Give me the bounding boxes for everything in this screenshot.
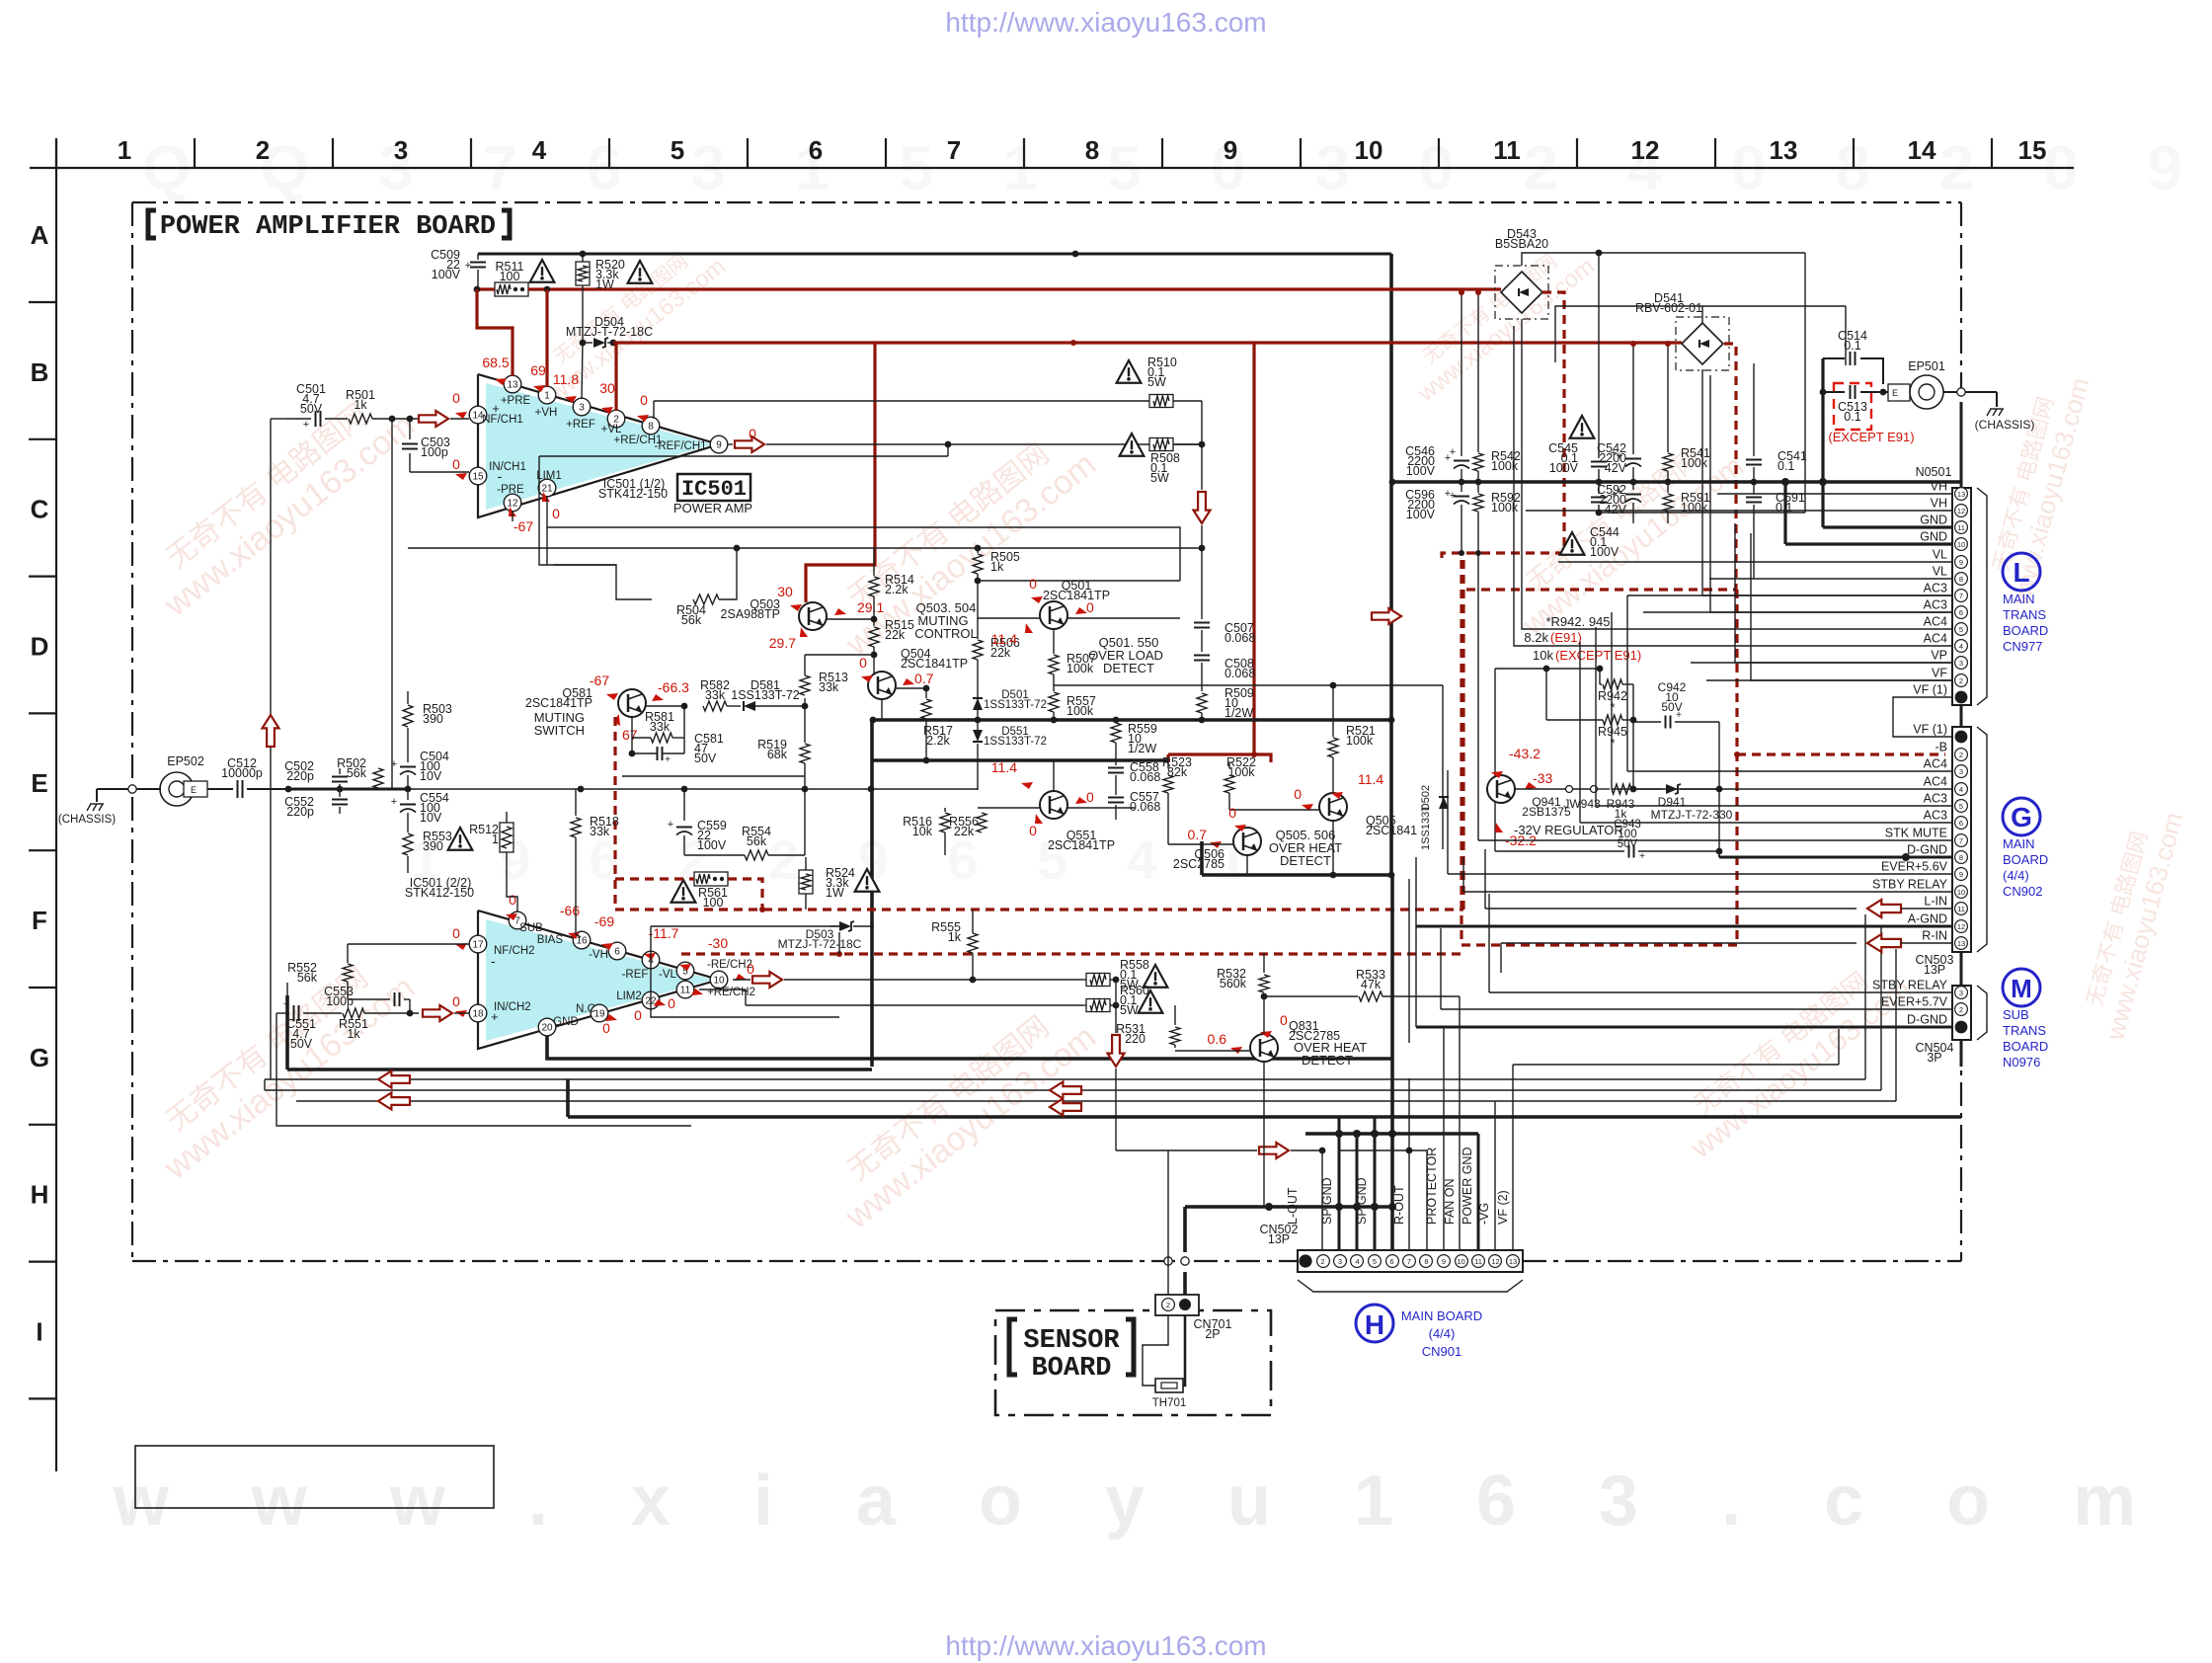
sensor board title	[1009, 1319, 1017, 1375]
svg-text:SWITCH: SWITCH	[534, 723, 585, 738]
svg-text:56k: 56k	[347, 766, 367, 780]
svg-text:VF (1): VF (1)	[1913, 683, 1947, 697]
svg-text:MTZJ-T-72-18C: MTZJ-T-72-18C	[778, 937, 862, 951]
svg-text:-67: -67	[513, 518, 533, 534]
vertical feeds right of rails	[1864, 914, 1866, 1079]
svg-text:N0976: N0976	[2003, 1055, 2040, 1069]
wire thick bus y=1222	[1185, 1205, 1392, 1209]
capacitor C541	[1753, 363, 1755, 456]
svg-text:7: 7	[1959, 592, 1963, 600]
IC501 (2/2) pin circles	[509, 911, 526, 929]
board dash-dot outline POWER AMPLIFIER BOARD	[132, 201, 1961, 203]
svg-text:(EXCEPT E91): (EXCEPT E91)	[1828, 430, 1914, 444]
svg-text:10: 10	[713, 976, 725, 987]
transistor Q501	[1040, 601, 1067, 629]
svg-text:-VH: -VH	[589, 949, 608, 961]
wire red x=886 to muting control	[806, 343, 875, 602]
svg-text:SP GND: SP GND	[1320, 1177, 1334, 1225]
svg-text:0: 0	[1086, 599, 1094, 615]
svg-text:82k: 82k	[1167, 765, 1188, 779]
svg-text:+: +	[665, 754, 671, 765]
svg-text:22k: 22k	[990, 646, 1011, 660]
resistor R516	[944, 808, 946, 812]
svg-text:G: G	[2011, 802, 2032, 832]
svg-text:0.1: 0.1	[1844, 410, 1860, 424]
svg-text:1SS133T-72: 1SS133T-72	[984, 699, 1047, 711]
red dashed from D543	[1542, 292, 1564, 553]
svg-text:0.068: 0.068	[1130, 770, 1160, 784]
svg-text:30: 30	[777, 584, 793, 599]
capacitor C546	[1461, 292, 1462, 456]
svg-text:2SC2785: 2SC2785	[1173, 857, 1224, 871]
svg-text:5: 5	[1373, 1257, 1377, 1266]
wire y=1165 L-OUT feed	[1116, 1149, 1257, 1151]
svg-text:68.5: 68.5	[482, 355, 509, 370]
svg-text:H: H	[1365, 1309, 1384, 1340]
svg-text:2SA988TP: 2SA988TP	[721, 607, 780, 621]
capacitor C512	[207, 788, 233, 790]
svg-text:9: 9	[1224, 135, 1237, 165]
svg-text:0: 0	[1228, 805, 1236, 821]
svg-text:VF (2): VF (2)	[1496, 1190, 1510, 1225]
svg-text:CN977: CN977	[2003, 639, 2042, 654]
resistor R591	[1667, 482, 1669, 493]
svg-text:+REF: +REF	[566, 419, 595, 431]
wire thick bus y=488	[1392, 480, 1961, 484]
svg-text:D941: D941	[1658, 795, 1687, 809]
svg-text:3: 3	[1338, 1257, 1342, 1266]
svg-text:B5SBA20: B5SBA20	[1495, 237, 1548, 251]
wire y=694	[1054, 684, 1443, 686]
svg-text:67: 67	[622, 727, 638, 743]
svg-text:+RE/CH2: +RE/CH2	[707, 987, 755, 998]
svg-text:19: 19	[593, 1009, 605, 1020]
svg-text:0.1: 0.1	[1844, 339, 1860, 353]
open circles border crossing	[1164, 1257, 1172, 1265]
svg-text:MTZJ-T-72-330: MTZJ-T-72-330	[1651, 808, 1733, 822]
wire thick D-GND feed	[1718, 855, 1720, 857]
svg-text:GND: GND	[1920, 514, 1947, 527]
svg-text:BOARD: BOARD	[2003, 1039, 2048, 1054]
svg-text:7: 7	[1959, 836, 1963, 845]
wire ch2 out bus tail	[286, 983, 288, 995]
connector CN701	[1155, 1295, 1199, 1315]
bridge D541	[1676, 317, 1729, 370]
svg-text:12: 12	[1957, 507, 1965, 515]
wire x=590 R520 to D504 to pin3	[582, 254, 584, 262]
resistor R514	[869, 577, 879, 596]
svg-text:2: 2	[1166, 1301, 1170, 1309]
wire red to pin 2	[614, 343, 617, 411]
wire thick rail y=1131	[568, 1115, 1961, 1119]
wire input loop ch2 down	[276, 1013, 691, 1126]
svg-text:100k: 100k	[1066, 704, 1094, 718]
svg-text:C: C	[31, 495, 49, 524]
svg-text:33k: 33k	[819, 680, 839, 694]
svg-text:11.4: 11.4	[1358, 771, 1383, 787]
svg-text:-30: -30	[708, 935, 728, 951]
svg-text:9: 9	[1959, 870, 1963, 879]
svg-text:1SS133T-72: 1SS133T-72	[984, 736, 1047, 748]
wire y=519	[1599, 512, 1805, 514]
svg-text:10: 10	[1957, 888, 1965, 897]
wires into CN504	[1489, 991, 1952, 993]
thick gnd pin20 path y=1072	[547, 1036, 1392, 1059]
svg-text:0: 0	[452, 456, 460, 472]
red dashed vertical x=623	[613, 717, 616, 910]
svg-text:GND: GND	[553, 1016, 579, 1028]
svg-text:13: 13	[1770, 135, 1798, 165]
wire Q501	[978, 617, 1040, 619]
thick stub between connectors	[1960, 705, 1963, 727]
svg-text:IC501: IC501	[681, 477, 747, 502]
svg-text:56k: 56k	[747, 834, 767, 848]
svg-text:8: 8	[1959, 575, 1963, 584]
svg-text:29.7: 29.7	[769, 635, 796, 651]
diode D503	[829, 925, 839, 927]
wires into CN503	[1627, 770, 1952, 772]
svg-text:G: G	[30, 1043, 49, 1072]
svg-text:N.C: N.C	[576, 1003, 595, 1015]
wire nest right of bank	[1702, 369, 1754, 579]
svg-text:AC4: AC4	[1924, 775, 1947, 789]
wire thick bus y=886	[1202, 873, 1391, 877]
svg-text:8: 8	[648, 422, 654, 433]
wire bus A y=729	[873, 718, 1391, 722]
svg-text:EP501: EP501	[1908, 359, 1945, 373]
svg-text:10k: 10k	[1533, 648, 1553, 663]
arrow up x=274	[263, 715, 279, 747]
svg-text:220: 220	[1125, 1032, 1145, 1046]
svg-text:7: 7	[947, 135, 961, 165]
svg-text:0: 0	[747, 961, 754, 977]
IC501 box label	[677, 474, 750, 501]
svg-text:10V: 10V	[420, 811, 442, 825]
svg-text:EVER+5.6V: EVER+5.6V	[1881, 860, 1948, 874]
wire y=553/555 line	[408, 547, 1202, 549]
svg-text:D-GND: D-GND	[1907, 843, 1947, 857]
svg-text:8: 8	[1959, 853, 1963, 862]
svg-text:MAIN BOARD: MAIN BOARD	[1401, 1308, 1482, 1323]
svg-text:10: 10	[1457, 1257, 1464, 1266]
wire CN701 to TH701	[1143, 1315, 1168, 1386]
capacitor C508	[1194, 655, 1210, 657]
wire x=885 vertical chain	[873, 548, 875, 576]
capacitor C558	[1108, 767, 1124, 769]
wire red over heat block horizontal	[1168, 754, 1271, 762]
resistor R560 boxed	[1081, 1004, 1086, 1006]
svg-text:2: 2	[1959, 1005, 1963, 1014]
svg-text:5W: 5W	[1120, 1003, 1139, 1017]
svg-text:+: +	[1611, 447, 1617, 459]
svg-text:BOARD: BOARD	[2003, 852, 2048, 867]
wire bus B y=770	[872, 758, 1168, 762]
svg-text:12: 12	[1631, 135, 1660, 165]
svg-text:2.2k: 2.2k	[885, 583, 908, 596]
blue G circle	[2003, 798, 2040, 835]
wire red jog to pin 13	[477, 289, 513, 376]
svg-text:GND: GND	[1920, 530, 1947, 544]
wire y=866 loop	[683, 789, 685, 821]
svg-text:-: -	[498, 468, 503, 484]
svg-text:-66: -66	[560, 903, 580, 918]
svg-text:-PRE: -PRE	[497, 484, 524, 496]
svg-text:N0501: N0501	[1916, 465, 1952, 479]
wire thick EP501 loop	[1821, 358, 1824, 527]
svg-text:(EXCEPT E91): (EXCEPT E91)	[1555, 648, 1641, 663]
wire red rail R1 y=293	[477, 287, 495, 290]
wires into N0501	[1717, 493, 1952, 495]
svg-text:AC3: AC3	[1924, 809, 1947, 823]
svg-text:L-OUT: L-OUT	[1286, 1187, 1300, 1225]
thermistor TH701	[1155, 1379, 1183, 1392]
svg-text:3P: 3P	[1927, 1051, 1941, 1065]
svg-text:+: +	[1450, 446, 1456, 458]
svg-text:IN/CH1: IN/CH1	[489, 461, 526, 473]
red dashed rail y=966	[681, 952, 1463, 955]
svg-text:9: 9	[716, 440, 722, 451]
svg-text:PROTECTOR: PROTECTOR	[1425, 1148, 1439, 1225]
resistor R509	[1197, 693, 1207, 713]
wire nest AC4 from D543	[1522, 319, 1659, 629]
capacitor C581	[631, 738, 633, 753]
svg-text:4: 4	[1355, 1257, 1359, 1266]
svg-text:FAN ON: FAN ON	[1443, 1178, 1457, 1225]
blue M circle	[2003, 969, 2040, 1006]
ground chassis left	[87, 804, 91, 811]
svg-text:0: 0	[1029, 823, 1037, 838]
svg-text:5: 5	[1959, 802, 1963, 811]
svg-text:1k: 1k	[948, 930, 962, 944]
svg-text:33k: 33k	[705, 688, 726, 702]
terminal EP502	[160, 772, 194, 806]
capacitor C514	[1850, 352, 1852, 365]
svg-text:11: 11	[1493, 135, 1521, 165]
svg-text:0: 0	[1280, 1012, 1288, 1028]
svg-text:+: +	[1639, 851, 1645, 862]
svg-text:-REF: -REF	[622, 969, 649, 981]
svg-text:http://www.xiaoyu163.com: http://www.xiaoyu163.com	[945, 7, 1266, 38]
capacitor C592	[1632, 482, 1634, 490]
wire nest AC3 from D541	[1702, 369, 1952, 595]
resistor R515	[873, 619, 875, 626]
wire long rail y=1115	[296, 1100, 1896, 1102]
CN502 brace	[1298, 1280, 1523, 1292]
wire feedback x=397 down to E bus	[391, 419, 393, 789]
resistor R517	[925, 688, 927, 698]
svg-text:11.8: 11.8	[553, 371, 579, 387]
svg-text:0: 0	[602, 1020, 610, 1036]
svg-text:13: 13	[1509, 1257, 1517, 1266]
svg-text:18: 18	[472, 1009, 484, 1020]
svg-text:RBV-602-01: RBV-602-01	[1635, 301, 1702, 315]
svg-text:15: 15	[2018, 135, 2047, 165]
svg-text:AC4: AC4	[1924, 632, 1947, 646]
svg-text:100V: 100V	[432, 268, 461, 281]
op-amp IC501 (2/2) power amp channel 2	[486, 919, 713, 1041]
top ruler	[30, 167, 2074, 169]
diode D504	[583, 342, 592, 344]
svg-text:11: 11	[1474, 1257, 1482, 1266]
svg-text:390: 390	[423, 712, 443, 726]
svg-text:STK MUTE: STK MUTE	[1885, 827, 1947, 840]
resistor R558 boxed	[1081, 979, 1086, 981]
svg-text:100k: 100k	[1681, 456, 1708, 470]
svg-text:2SC1841: 2SC1841	[1366, 824, 1417, 837]
svg-text:68k: 68k	[767, 748, 788, 761]
svg-text:100: 100	[703, 896, 724, 910]
svg-text:47k: 47k	[1361, 978, 1382, 991]
svg-text:10: 10	[1355, 135, 1383, 165]
resistor R592	[1477, 482, 1479, 493]
wire R504 loop	[553, 565, 652, 599]
svg-text:A: A	[31, 220, 49, 250]
resistor R508	[873, 443, 1149, 445]
svg-text:STBY RELAY: STBY RELAY	[1872, 878, 1948, 892]
capacitor C507	[1194, 622, 1210, 624]
svg-text:5: 5	[1959, 625, 1963, 634]
svg-text:100p: 100p	[326, 994, 354, 1008]
svg-text:*R942. 945: *R942. 945	[1545, 614, 1610, 629]
svg-text:w w w . x i a o y u 1 6 3 . c: w w w . x i a o y u 1 6 3 . c o m	[113, 1462, 2168, 1541]
svg-text:2: 2	[1959, 751, 1963, 759]
wire x=1654	[1632, 684, 1634, 789]
svg-text:12: 12	[1491, 1257, 1499, 1266]
svg-text:4: 4	[1959, 785, 1963, 794]
svg-text:9: 9	[1959, 558, 1963, 567]
wire x=1217 column	[1201, 401, 1203, 490]
capacitor C545	[1570, 416, 1595, 438]
resistor R505	[977, 548, 979, 553]
svg-text:+: +	[465, 260, 471, 272]
vertical nest above connector rows	[1716, 425, 1718, 494]
svg-text:13: 13	[1957, 939, 1965, 948]
svg-text:50V: 50V	[694, 752, 717, 765]
resistor R942	[1599, 669, 1601, 684]
resistor R506	[977, 581, 979, 639]
svg-text:1W: 1W	[826, 886, 844, 900]
transistor Q831	[1250, 1034, 1278, 1062]
svg-text:7: 7	[1407, 1257, 1411, 1266]
svg-text:100k: 100k	[1227, 765, 1255, 779]
thin pin feeds CN502	[1426, 1151, 1428, 1254]
svg-text:29.1: 29.1	[857, 599, 884, 615]
svg-text:LIM2: LIM2	[616, 990, 642, 1002]
svg-text:2: 2	[256, 135, 270, 165]
svg-text:220p: 220p	[286, 769, 314, 783]
wire Q831	[1175, 1050, 1250, 1052]
svg-text:-33: -33	[1533, 770, 1552, 786]
svg-text:0.068: 0.068	[1224, 667, 1255, 680]
svg-text:6: 6	[1959, 819, 1963, 828]
red dashed y=560	[1442, 553, 1564, 560]
transistor Q941	[1487, 775, 1515, 803]
svg-text:-66.3: -66.3	[658, 679, 689, 695]
svg-text:56k: 56k	[297, 971, 318, 985]
svg-text:L-IN: L-IN	[1924, 895, 1947, 909]
svg-text:+VH: +VH	[535, 407, 558, 419]
wire Q505	[1332, 685, 1334, 737]
svg-text:2: 2	[1959, 676, 1963, 685]
wire long rail y=1104	[265, 1089, 1881, 1091]
svg-text:100V: 100V	[697, 838, 727, 852]
svg-text:1W: 1W	[595, 277, 614, 291]
resistor R521	[1328, 738, 1338, 757]
wire thick rail y=1147	[1305, 1132, 1478, 1136]
diode D551	[977, 720, 979, 730]
svg-text:-B: -B	[1935, 741, 1948, 754]
arrow input ch1	[419, 411, 448, 427]
wire Q551	[1053, 760, 1055, 791]
op-amp IC501 (1/2) power amp channel 1	[486, 383, 713, 510]
svg-text:0: 0	[1294, 786, 1302, 802]
diode D502	[1439, 797, 1449, 809]
svg-text:1k: 1k	[354, 398, 367, 412]
svg-text:-: -	[491, 953, 496, 969]
resistor R556	[981, 820, 983, 824]
svg-text:POWER AMP: POWER AMP	[673, 501, 752, 515]
svg-text:STK412-150: STK412-150	[405, 886, 474, 900]
svg-text:13: 13	[1957, 490, 1965, 499]
svg-text:6: 6	[1389, 1257, 1393, 1266]
svg-text:L: L	[2013, 557, 2029, 588]
svg-text:6: 6	[614, 947, 620, 958]
svg-text:14: 14	[1908, 135, 1936, 165]
arrow input ch2	[423, 1005, 452, 1021]
svg-text:2SC1841TP: 2SC1841TP	[1048, 838, 1115, 852]
svg-text:EVER+5.7V: EVER+5.7V	[1881, 995, 1948, 1009]
svg-text:560k: 560k	[1220, 977, 1247, 990]
svg-text:4: 4	[532, 135, 547, 165]
wire chassis stub left	[97, 788, 161, 790]
sensor board dash box	[995, 1310, 1271, 1415]
arrow right mid D	[1372, 608, 1401, 624]
svg-text:A-GND: A-GND	[1908, 912, 1947, 926]
svg-text:13P: 13P	[1924, 963, 1945, 977]
svg-text:E: E	[1892, 388, 1898, 398]
svg-text:+: +	[668, 819, 673, 831]
left ruler	[55, 140, 57, 1471]
svg-text:-32V REGULATOR: -32V REGULATOR	[1514, 823, 1623, 837]
connector CN503	[1952, 727, 1971, 952]
svg-text:EP502: EP502	[167, 754, 204, 768]
svg-text:AC3: AC3	[1924, 792, 1947, 806]
wire stub above N0501	[1960, 402, 1963, 488]
connector CN504	[1952, 986, 1971, 1040]
svg-text:22k: 22k	[885, 628, 906, 642]
bridge D543	[1495, 266, 1548, 319]
svg-text:IN/CH2: IN/CH2	[494, 1001, 531, 1013]
svg-text:2: 2	[1320, 1257, 1324, 1266]
wire Q581 base chain R582 D581	[646, 705, 684, 707]
svg-text:16: 16	[576, 936, 588, 947]
transistor Q504	[868, 672, 896, 699]
svg-text:NF/CH2: NF/CH2	[494, 945, 535, 957]
svg-text:4: 4	[1959, 642, 1963, 651]
svg-text:SUB: SUB	[2003, 1007, 2029, 1022]
svg-text:2SC1841TP: 2SC1841TP	[901, 657, 968, 671]
svg-text:+: +	[303, 419, 309, 431]
svg-text:0.6: 0.6	[1208, 1031, 1227, 1047]
resistor R559	[1115, 720, 1117, 722]
svg-text:13: 13	[507, 380, 518, 391]
svg-text:5W: 5W	[1147, 375, 1166, 389]
svg-text:6: 6	[809, 135, 823, 165]
svg-text:12: 12	[507, 499, 518, 510]
svg-text:0: 0	[452, 993, 460, 1009]
svg-text:-VG: -VG	[1477, 1203, 1491, 1225]
svg-text:+: +	[491, 1009, 499, 1024]
